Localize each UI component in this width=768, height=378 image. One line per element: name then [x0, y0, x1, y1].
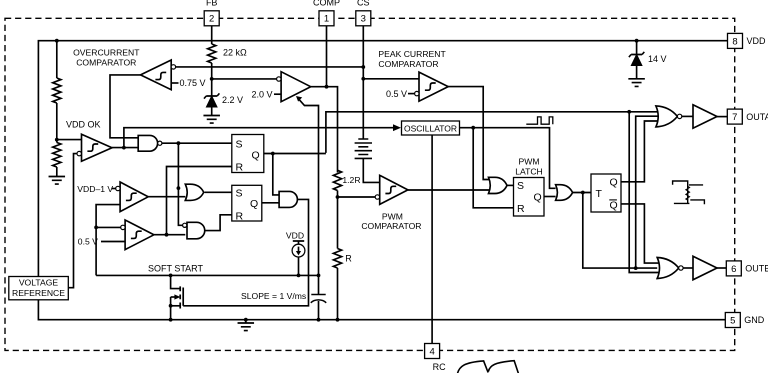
nor gate B: [657, 258, 679, 279]
svg-text:COMPARATOR: COMPARATOR: [378, 59, 438, 69]
wire latch1 R from 0.5V comparator: [167, 167, 232, 235]
label 0.75 V: [171, 82, 178, 84]
svg-text:7: 7: [732, 112, 737, 123]
resistor R: [333, 249, 341, 269]
pin 5 GND: [725, 313, 740, 328]
latch 1 (overcurrent): [232, 135, 264, 173]
ground (VDD divider): [49, 177, 66, 185]
wire divider tap to PWM comparator: [338, 196, 376, 198]
resistor 22 kOhm: [208, 44, 216, 63]
svg-text:S: S: [517, 180, 524, 192]
wire G2 output to latch2 R: [205, 215, 232, 231]
svg-text:R: R: [345, 254, 352, 264]
wire oscillator output (clock): [460, 128, 556, 189]
wire pwm latch Q to toggle OR: [544, 196, 556, 198]
svg-text:PWM: PWM: [518, 157, 539, 167]
wire toggle OR output to T flip-flop: [573, 192, 591, 194]
wire pwm comparator output: [408, 189, 490, 191]
ground (zener 2.2V): [203, 116, 220, 124]
svg-text:1: 1: [324, 14, 329, 25]
svg-text:5: 5: [730, 315, 735, 326]
wire 0.5V comparator output: [154, 234, 185, 236]
buffer A: [682, 115, 693, 117]
svg-text:SOFT START: SOFT START: [148, 263, 204, 273]
zener 14 V: [629, 41, 644, 57]
capacitor soft start: [318, 275, 320, 294]
svg-text:VDD: VDD: [286, 231, 304, 241]
wire G3 output to mosfet gate: [183, 199, 308, 305]
svg-text:0.75 V: 0.75 V: [180, 78, 206, 88]
toggle flip-flop: [591, 174, 621, 212]
svg-text:OSCILLATOR: OSCILLATOR: [404, 123, 457, 133]
zener 2.2 V: [204, 93, 219, 98]
clock waveform icon: [526, 117, 553, 124]
mosfet soft start discharge: [171, 275, 181, 288]
svg-text:R: R: [236, 162, 244, 174]
and gate G2 (inverted input, latch2 R): [187, 222, 205, 239]
pin 2 FB: [211, 26, 213, 44]
svg-text:4: 4: [429, 346, 434, 357]
svg-text:VOLTAGE: VOLTAGE: [19, 278, 59, 288]
nand gate U_OK: [138, 135, 157, 151]
pin 1 COMP: [326, 26, 328, 87]
svg-text:LATCH: LATCH: [515, 166, 543, 176]
sawtooth waveform icon: [457, 361, 518, 374]
or gate PWM latch S input: [507, 184, 514, 186]
wire NAND output branch down: [178, 143, 182, 225]
resistor R_A (VDD divider upper): [53, 78, 61, 103]
wire VDD OK to oscillator input: [124, 128, 396, 148]
svg-text:OVERCURRENT: OVERCURRENT: [73, 47, 140, 57]
and gate G3 (soft start discharge): [279, 191, 297, 207]
svg-text:S: S: [236, 188, 243, 200]
wire NAND output to latch1 S: [162, 142, 232, 144]
svg-text:22 kΩ: 22 kΩ: [223, 48, 247, 58]
wire reference to VDD OK inverting input: [68, 154, 77, 288]
svg-text:T: T: [596, 188, 603, 200]
or gate toggle input: [556, 185, 573, 201]
oscillator box: [402, 121, 460, 135]
nor gate A: [656, 106, 678, 127]
svg-text:2: 2: [209, 14, 214, 25]
wire VDD OK output to NAND: [112, 147, 138, 149]
dead time waveform icon: [673, 181, 705, 204]
wire VDD rail: [38, 41, 728, 277]
battery offset stack (CS to PWM comparator): [355, 139, 372, 158]
svg-text:CS: CS: [357, 0, 370, 8]
wire divider tap to VDD OK: [57, 139, 82, 141]
svg-text:2.2 V: 2.2 V: [222, 95, 243, 105]
svg-text:PWM: PWM: [382, 211, 403, 221]
pin 8 VDD: [728, 33, 743, 48]
svg-text:VDD OK: VDD OK: [66, 119, 101, 129]
resistor 1.2R: [333, 170, 341, 190]
svg-text:1.2R: 1.2R: [342, 175, 360, 185]
wire GND rail: [38, 300, 726, 320]
svg-text:OUTA: OUTA: [746, 112, 768, 122]
svg-text:3: 3: [361, 14, 366, 25]
svg-text:RC: RC: [433, 362, 446, 372]
svg-text:14 V: 14 V: [648, 54, 667, 64]
svg-text:R: R: [236, 211, 244, 223]
wire FB to error amp inverting input: [212, 78, 277, 80]
svg-text:Q: Q: [252, 150, 260, 162]
svg-text:REFERENCE: REFERENCE: [12, 288, 65, 298]
svg-text:COMPARATOR: COMPARATOR: [76, 57, 136, 67]
svg-text:S: S: [236, 139, 243, 151]
svg-text:R: R: [517, 203, 525, 215]
pwm comparator: [380, 175, 408, 204]
svg-text:Q: Q: [610, 177, 618, 189]
svg-text:2.0 V: 2.0 V: [251, 89, 272, 99]
label 0.5 V (peak): [408, 93, 415, 95]
svg-text:COMPARATOR: COMPARATOR: [361, 221, 421, 231]
ground (bottom rail): [245, 320, 247, 323]
svg-text:Q: Q: [534, 191, 542, 203]
svg-text:Q: Q: [250, 198, 258, 210]
wire VDD-1V output to G1: [148, 196, 185, 198]
wire CS to peak comparator: [363, 78, 419, 80]
wire blanking branch to NOR B: [629, 112, 661, 273]
svg-text:SLOPE = 1 V/ms: SLOPE = 1 V/ms: [241, 291, 306, 301]
wire blanking latch1 Q to NOR gates: [326, 112, 660, 153]
svg-text:GND: GND: [744, 315, 765, 325]
latch 2 (soft start): [232, 185, 262, 221]
svg-text:Q: Q: [610, 199, 618, 211]
wire overcurrent comparator output to NAND input: [110, 75, 141, 138]
soft start clamp arrow to error amp: [298, 98, 319, 275]
wire overcurrent inverting input to CS: [176, 66, 364, 68]
wire toggle branch to NOR middle inputs: [583, 193, 657, 269]
error amplifier: [281, 72, 311, 102]
svg-text:FB: FB: [206, 0, 218, 8]
svg-text:0.5 V: 0.5 V: [78, 237, 98, 247]
svg-text:VDD–1 V: VDD–1 V: [77, 184, 113, 194]
ground (zener 14V): [628, 79, 645, 87]
pin 4 RC: [431, 135, 433, 344]
wire comparator sense line (soft start node): [96, 205, 120, 276]
resistor R_B (VDD divider lower): [53, 143, 61, 168]
wire G1 output to latch2 S: [205, 191, 232, 193]
pin 7 OUTA: [727, 109, 742, 124]
wire Qbar to NOR B: [621, 204, 661, 263]
svg-text:VDD: VDD: [747, 36, 767, 46]
wire latch2 Q to and gate G3: [262, 202, 279, 204]
buffer B: [683, 267, 693, 269]
wire error amp output to divider: [311, 87, 338, 173]
svg-text:PEAK CURRENT: PEAK CURRENT: [378, 49, 446, 59]
or gate G1 (latch2 S): [185, 184, 203, 200]
pin 3 CS: [362, 26, 364, 139]
wire peak comparator output to PWM latch S gate: [448, 87, 492, 180]
svg-text:8: 8: [732, 36, 737, 47]
wire oscillator to PWM latch R: [473, 128, 513, 208]
svg-text:6: 6: [731, 264, 736, 275]
wire latch1 Q output: [264, 153, 326, 155]
svg-text:COMP: COMP: [313, 0, 340, 8]
soft start node wire: [96, 274, 318, 276]
label 2.0 V: [274, 93, 281, 95]
svg-text:OUTB: OUTB: [745, 264, 768, 274]
wire latch1 Q branch to and gate: [273, 154, 279, 195]
wire Q to NOR A: [621, 121, 660, 182]
pin 6 OUTB: [726, 261, 741, 276]
svg-text:0.5 V: 0.5 V: [386, 89, 407, 99]
voltage reference box: [9, 277, 69, 300]
